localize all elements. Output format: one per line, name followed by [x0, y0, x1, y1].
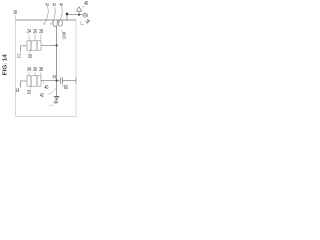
node dot J2: [56, 80, 58, 82]
wire: leader 34: [28, 72, 30, 76]
wire: leader to top-left corner: [14, 15, 16, 20]
wire: crystal 2 right lead: [41, 80, 57, 82]
svg-text:42: 42: [40, 93, 44, 99]
wire: main vertical (oscillation line): [56, 27, 58, 97]
wire: top rail: [16, 19, 76, 21]
node dot J4 (under antenna): [78, 14, 80, 16]
terminal bar at right edge: [75, 78, 77, 84]
svg-text:28: 28: [39, 29, 43, 35]
terminal tick right of circle: [87, 14, 89, 17]
svg-text:44: 44: [54, 100, 58, 106]
svg-text:14: 14: [15, 88, 19, 94]
wire: crystal 1 right lead: [41, 44, 57, 46]
svg-text:66: 66: [64, 85, 68, 91]
wire: leader 28: [40, 34, 42, 41]
wire: leader 100: [61, 30, 63, 32]
svg-text:100: 100: [61, 31, 66, 39]
wire: leader 64: [55, 78, 56, 80]
capacitor C1 (curved plate): [59, 77, 62, 83]
wire: leader 24: [28, 34, 30, 41]
wire: leader 56: [59, 7, 63, 23]
wire: leader 44: [49, 105, 53, 106]
wire: crystal 2 left lead with stub: [21, 81, 27, 88]
wire: leader 38: [40, 72, 42, 76]
wire: capacitor to right edge: [63, 80, 77, 82]
wire: leader 66: [62, 84, 64, 86]
crystal resonator X2 (3-cell box): [27, 76, 41, 86]
svg-text:38: 38: [39, 67, 43, 73]
wire: leader 52: [43, 7, 48, 25]
wire: leader 36: [34, 72, 36, 76]
svg-text:52: 52: [46, 2, 50, 7]
svg-text:64: 64: [53, 74, 57, 79]
node dot J3: [66, 13, 69, 16]
wire: antenna feed line: [67, 14, 83, 16]
svg-text:30: 30: [28, 54, 32, 60]
wire: leader 54: [50, 7, 55, 25]
wire: vertical link antenna line to rail: [66, 15, 68, 20]
ground symbol: [54, 96, 60, 99]
svg-text:40: 40: [44, 85, 48, 91]
antenna ANT: [76, 7, 81, 15]
inductor L1 (loop under top rail): [53, 20, 57, 26]
enclosure box (substrate outline): [16, 20, 76, 116]
svg-text:FIG. 14: FIG. 14: [2, 53, 8, 75]
wire: leader 32: [30, 86, 31, 89]
wire: leader 26: [34, 34, 36, 41]
node dot J1 (crystal 1 lead to vertical): [56, 44, 58, 46]
svg-text:46: 46: [84, 1, 88, 7]
wire: leader 42: [48, 88, 56, 94]
label 50 (small L mark): [81, 21, 84, 24]
source squiggle inside: [84, 14, 86, 17]
wire: leader 40: [42, 82, 45, 84]
svg-text:56: 56: [60, 2, 64, 7]
svg-text:54: 54: [53, 2, 57, 7]
wire: crystal 1 left lead with stub: [21, 46, 27, 52]
wire: to capacitor: [57, 80, 60, 82]
inductor L2 (second loop under top rail): [59, 20, 63, 26]
wire: leader 46: [82, 5, 85, 8]
signal source port (circle): [83, 13, 87, 17]
svg-text:32: 32: [27, 90, 31, 96]
crystal resonator X1 (3-cell box): [27, 41, 41, 50]
wire: leader 30: [30, 50, 31, 53]
svg-text:12: 12: [17, 54, 21, 60]
capacitor C1 (flat plate): [62, 77, 64, 83]
